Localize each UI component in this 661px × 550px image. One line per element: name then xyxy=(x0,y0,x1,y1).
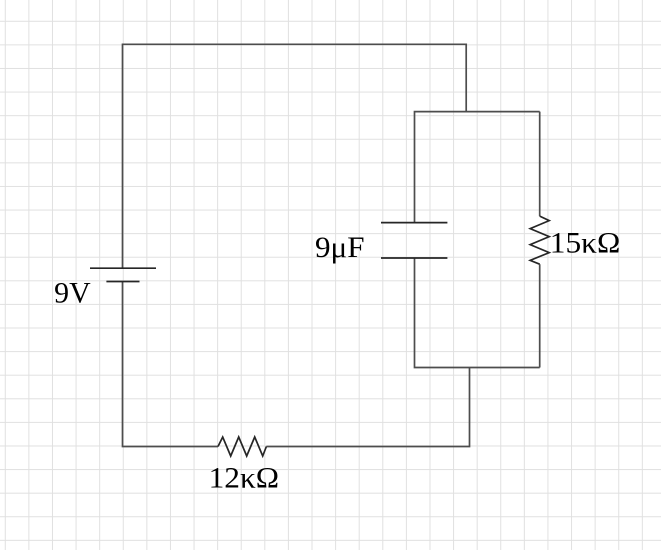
svg-text:15κΩ: 15κΩ xyxy=(550,228,621,260)
svg-text:9V: 9V xyxy=(54,278,90,310)
svg-text:12κΩ: 12κΩ xyxy=(209,463,280,495)
svg-text:9μF: 9μF xyxy=(315,232,365,264)
